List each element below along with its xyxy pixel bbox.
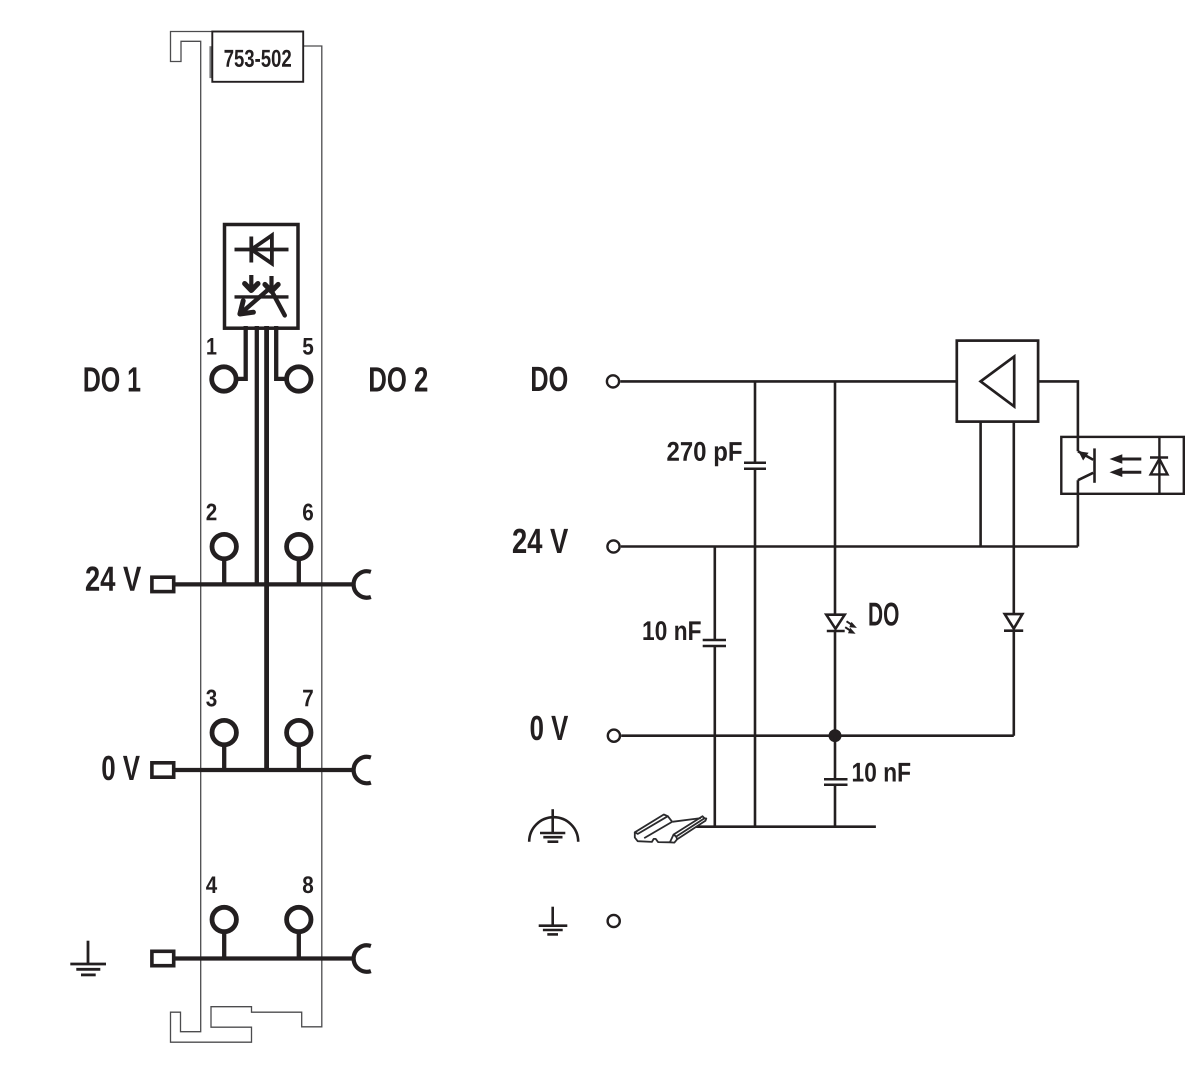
wire pin4 stem [222,932,226,959]
0V connector hook [354,757,371,783]
module outline (housing profile) [171,32,322,1043]
label 24 V (net) [513,529,568,553]
label shadow strip [209,46,212,78]
wire diode to 0V [1012,631,1015,736]
wire LED branch lower [834,631,837,736]
pin 4 [212,907,236,931]
wire driver out to optocoupler [1038,381,1078,437]
value label 10 nF (2) [853,763,910,782]
pin number 8 [303,876,313,893]
wire 270pF branch upper [754,381,757,462]
wire 270pF branch lower [754,469,757,827]
label box 753-502 [212,32,303,82]
earth terminal lug [152,951,174,965]
24V bus wire [176,582,356,586]
pin number 5 [303,338,313,355]
label DO (net) [532,367,567,392]
wire box to pin 5 [276,326,285,379]
pin 2 [212,534,236,558]
wire 10nF branch upper [713,547,716,641]
pin 3 [212,720,236,744]
functional earth symbol (rail ground) [529,809,578,842]
wire driver to 24V [979,422,982,547]
wire optocoupler to 24V [1077,494,1080,547]
label 24 V [86,566,141,590]
wire pin2 stem [222,559,226,585]
earth connector hook [354,945,371,971]
optocoupler light arrows [1110,454,1142,477]
24V connector hook [354,571,371,597]
ground symbol (bottom) [539,907,568,935]
label 0 V (net) [531,716,569,741]
terminal 0V [608,730,620,742]
pin number 3 [206,690,216,707]
phototransistor Q1 [1078,437,1095,494]
wire box to 24V bus [255,326,259,584]
wire pin7 stem [297,745,301,770]
wire pin6 stem [297,559,301,585]
optocoupler indicator box U1 [225,225,299,329]
ground rail wire [694,825,876,828]
wire box to 0V bus [264,326,269,770]
wire pin3 stem [222,745,226,770]
label DO 2 [370,367,427,392]
label text 753-502 [225,50,292,67]
pin 1 [212,367,236,391]
LED DO indicator [826,615,844,631]
LED light arrows [845,621,857,634]
wire DO net [620,380,957,383]
diode D (top symbol in box) [235,235,289,263]
optocoupler diode D3 [1150,437,1168,494]
0V bus wire [176,768,356,772]
pin number 4 [206,877,217,894]
wire 24V net [621,545,1078,548]
pin number 7 [303,690,313,707]
label DO 1 [85,367,141,392]
capacitor C1 270pF [744,463,766,469]
wire 10nF branch lower [713,646,716,827]
pin 6 [287,534,311,558]
24V terminal lug [152,577,174,591]
ground symbol (module earth) [70,941,106,975]
terminal earth (bottom) [608,915,620,927]
wire 0V net [621,734,1014,737]
pin number 1 [207,338,216,355]
DIN rail symbol [635,815,707,843]
label 0 V [102,756,140,781]
capacitor C2 10nF [703,640,726,646]
wire box to pin 1 [237,326,246,379]
wire LED branch upper [834,381,837,614]
wire 10nF-2 branch upper [834,736,837,780]
pin 5 [287,367,311,391]
wire pin8 stem [297,932,301,959]
junction node 0V/LED [829,729,842,742]
value label 270 pF [667,442,741,467]
terminal DO [607,375,619,387]
0V terminal lug [152,763,174,777]
diode D2 [1004,614,1023,631]
earth bus wire [176,956,356,960]
wire 10nF-2 branch lower [834,785,837,827]
optocoupler box U3 [1061,437,1184,494]
driver box U2 [957,341,1038,422]
terminal 24V [607,540,619,552]
capacitor C3 10nF [824,779,848,785]
pin 7 [287,720,311,744]
pin number 6 [303,504,313,521]
pin number 2 [207,504,217,521]
value label 10 nF [643,621,700,640]
wire driver to diode branch [1012,422,1015,614]
pin 8 [287,907,311,931]
driver triangle [981,357,1015,407]
phototransistor arrow [1078,451,1088,460]
photo-triac (bottom symbol in box) [235,275,289,315]
label DO (LED) [869,603,898,626]
